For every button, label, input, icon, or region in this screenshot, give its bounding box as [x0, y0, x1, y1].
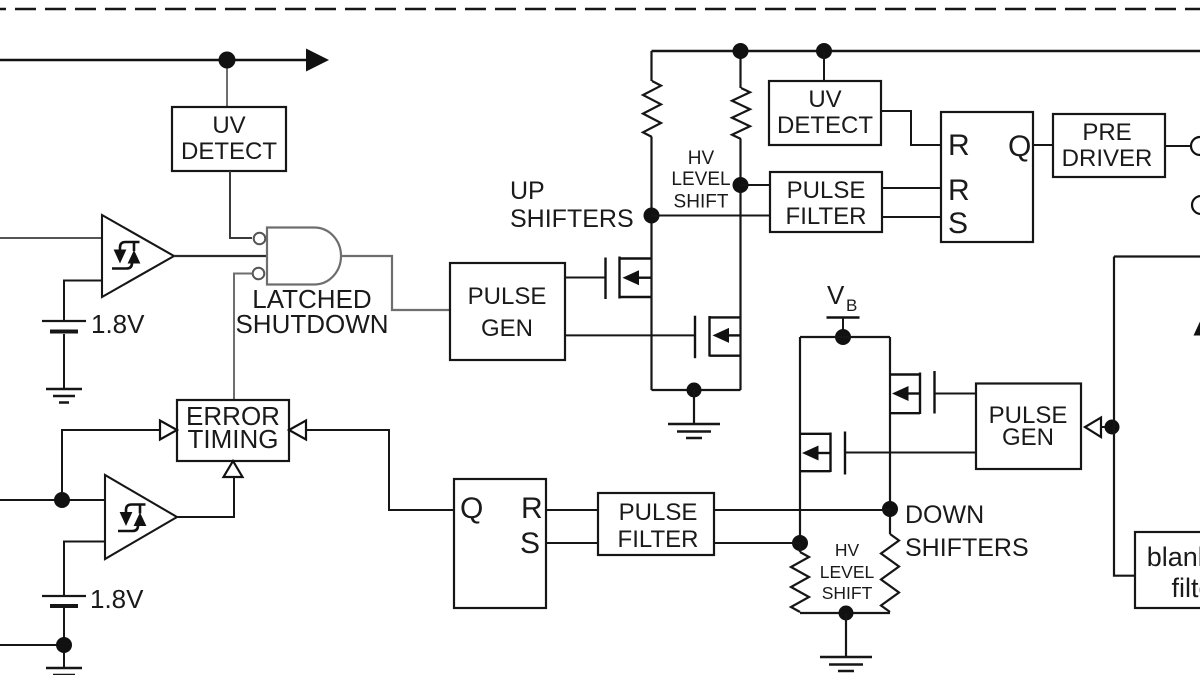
svg-text:SHIFTERS: SHIFTERS [510, 205, 634, 233]
ground (comparator U1 reference) [46, 389, 82, 403]
junction dot node up shifters [644, 208, 660, 224]
svg-text:UP: UP [510, 177, 545, 205]
pre driver box [1053, 114, 1165, 177]
ground (up shifters) [668, 424, 720, 438]
svg-text:1.8V: 1.8V [90, 584, 144, 614]
junction dot [839, 606, 854, 621]
svg-text:PRE: PRE [1082, 119, 1131, 146]
comparator U2 (schmitt) [105, 475, 177, 559]
pulse filter 1 box [770, 172, 882, 232]
blanking filter box [1135, 532, 1200, 608]
junction dot HV level shift node [733, 177, 749, 193]
arrowhead [306, 49, 329, 72]
wire left vertical (M4 branch) [799, 337, 801, 552]
junction dot [56, 637, 72, 653]
wire battery to ground [63, 608, 65, 667]
NAND gate latched shutdown [267, 228, 341, 285]
junction dot [1105, 420, 1120, 435]
svg-text:Q: Q [1008, 130, 1031, 163]
UV detect 2 box [769, 81, 881, 145]
svg-text:DETECT: DETECT [181, 138, 277, 165]
junction dot [54, 492, 70, 508]
svg-text:GEN: GEN [1002, 424, 1054, 451]
schmitt hysteresis glyph [120, 242, 140, 250]
junction dot down shifters node [882, 501, 898, 517]
error timing bottom input triangle [224, 461, 243, 477]
wire error timing right input to latch 2 Q [306, 430, 454, 510]
wire / resistor R3 branch [799, 543, 801, 552]
pin HO terminal circle [1191, 137, 1200, 155]
svg-text:Q: Q [460, 492, 483, 525]
wire error timing left input [62, 430, 160, 500]
svg-text:S: S [520, 527, 540, 560]
svg-text:SHIFTERS: SHIFTERS [905, 534, 1029, 562]
svg-text:FILTER: FILTER [618, 526, 699, 553]
transistor M2 (up shifter) [695, 316, 741, 359]
comparator U1 (schmitt) [102, 215, 174, 297]
wire input pin to comparator U2 [0, 499, 105, 501]
output driver box (clipped) [1114, 257, 1200, 576]
wire junction to UV detect 1 [226, 60, 228, 107]
svg-text:SHIFT: SHIFT [674, 192, 729, 213]
VB top rail [652, 50, 1200, 52]
junction dot [835, 329, 851, 345]
wire pulse gen 1 to up shifter M2 gate [565, 334, 695, 336]
svg-text:S: S [948, 207, 968, 240]
wire M1 drain / resistor R1 / up rail branch [650, 51, 652, 390]
transistor M3 (down shifter) [890, 371, 935, 414]
junction dot [792, 535, 808, 551]
resistor R4 (HV level shift down right) [881, 534, 899, 612]
ground (bottom left) [46, 668, 82, 675]
svg-text:DRIVER: DRIVER [1062, 145, 1153, 172]
wire pulse gen 1 to up shifter M1 gate [565, 277, 606, 279]
svg-text:HV: HV [688, 148, 715, 169]
transistor M1 (up shifter) [606, 257, 652, 300]
pulse gen 1 box [450, 263, 565, 360]
svg-text:HV: HV [835, 540, 860, 560]
svg-text:blanking: blanking [1147, 542, 1200, 572]
wire UV detect 2 to latch R input [881, 111, 941, 145]
NAND input bubble top [254, 233, 266, 245]
svg-text:filter: filter [1171, 573, 1200, 603]
svg-text:DOWN: DOWN [905, 501, 984, 529]
wire node to pulse filter 1 input A [741, 184, 771, 186]
wire comparator U1 reference input [64, 281, 102, 321]
wire comparator U1 output to NAND [174, 255, 267, 257]
svg-text:GEN: GEN [481, 315, 533, 342]
wire latch 2 R to pulse filter 2 [546, 509, 598, 511]
wire VB rail to UV detect 2 [823, 51, 825, 81]
resistor R2 (HV level shift) [732, 88, 750, 139]
svg-text:R: R [521, 492, 543, 525]
IC boundary dashed line [0, 8, 1200, 11]
wire latch Q to pre driver [1033, 144, 1053, 146]
svg-text:SHIFT: SHIFT [822, 583, 873, 603]
wire battery to ground [63, 334, 65, 388]
wire NAND output to pulse gen 1 [341, 256, 450, 310]
wire to ground [845, 613, 847, 657]
svg-text:TIMING: TIMING [188, 424, 279, 454]
svg-text:B: B [846, 296, 857, 315]
wire VB to down shifter rail [842, 318, 844, 338]
NAND input bubble bottom [253, 268, 265, 280]
svg-text:R: R [948, 129, 970, 162]
wire triangle to blanking line [1100, 426, 1114, 428]
wire COM pin [0, 644, 64, 646]
battery 1.8V (bottom) [42, 595, 86, 597]
latch 1 box [941, 112, 1033, 242]
wire M4 gate to pulse gen 2 [845, 452, 976, 454]
wire latch 2 S to pulse filter 2 [546, 542, 598, 544]
wire node to pulse filter 1 input B [652, 215, 771, 217]
svg-text:DETECT: DETECT [777, 112, 873, 139]
junction dot [219, 52, 236, 69]
junction dot [733, 43, 749, 59]
error timing box [177, 400, 289, 461]
pin VS terminal circle [1192, 196, 1200, 214]
VB terminal bar [827, 316, 860, 318]
wire up shifter sources to ground [652, 389, 741, 391]
wire pulse filter 1 to latch S [882, 216, 941, 218]
svg-text:FILTER: FILTER [786, 203, 867, 230]
resistor R1 (HV level shift) [643, 81, 661, 137]
latch 2 box [454, 479, 546, 608]
svg-text:PULSE: PULSE [787, 177, 866, 204]
pulse gen 2 input triangle [1085, 418, 1101, 438]
svg-text:SHUTDOWN: SHUTDOWN [235, 309, 388, 339]
pulse filter 2 box [598, 493, 714, 555]
wire pre driver to HO pin [1165, 145, 1190, 147]
down shifter VB rail [800, 336, 890, 338]
comparator input wire (left pin) [0, 237, 102, 239]
svg-text:LEVEL: LEVEL [820, 562, 875, 582]
UV detect 1 box [172, 107, 286, 171]
transistor M4 (down shifter) [800, 432, 845, 475]
wire M2 drain / resistor R2 branch [739, 51, 741, 390]
error timing left input triangle [160, 421, 177, 440]
wire pulse filter 2 to down shifter node B [714, 542, 800, 544]
svg-text:V: V [827, 280, 845, 310]
schmitt hysteresis glyph [126, 505, 146, 513]
svg-text:PULSE: PULSE [468, 283, 547, 310]
svg-text:UV: UV [808, 86, 841, 113]
wire comparator U2 reference input [64, 542, 105, 596]
junction dot [687, 383, 702, 398]
svg-text:UV: UV [212, 112, 245, 139]
wire NAND bottom bubble to error timing [234, 274, 253, 401]
battery 1.8V (top) [42, 320, 86, 322]
ground (down shifters) [820, 657, 872, 671]
wire comparator U2 output to error timing bottom [177, 477, 234, 517]
junction dot [816, 43, 832, 59]
wire UV detect 1 to NAND top input [230, 171, 252, 238]
wire to ground [693, 390, 695, 423]
driver triangle (clipped) [1194, 322, 1200, 336]
error timing right input triangle [289, 421, 306, 440]
svg-text:PULSE: PULSE [619, 499, 698, 526]
wire VCC top rail with arrow [0, 59, 308, 62]
down shifter bottom rail [800, 612, 890, 614]
wire pulse filter 1 to latch R [882, 187, 941, 189]
svg-text:LEVEL: LEVEL [671, 169, 730, 190]
wire right vertical (M3 branch) [889, 337, 891, 534]
resistor R3 (HV level shift down left) [791, 552, 809, 612]
wire pulse filter 2 to down shifter node [714, 509, 890, 511]
svg-text:R: R [948, 174, 970, 207]
svg-text:1.8V: 1.8V [91, 309, 145, 339]
wire M3 gate to pulse gen 2 [935, 393, 977, 395]
pulse gen 2 box [976, 384, 1081, 470]
